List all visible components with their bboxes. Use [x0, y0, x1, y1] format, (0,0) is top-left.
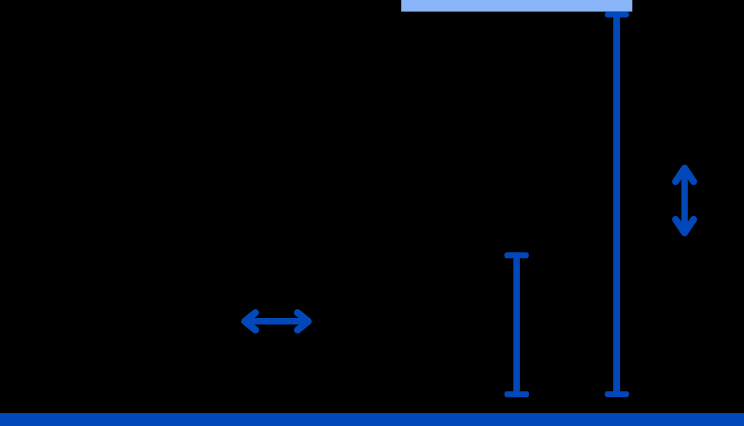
- shaft: [249, 318, 304, 325]
- stem: [613, 14, 620, 394]
- top cap: [605, 12, 629, 18]
- top head: [676, 168, 694, 181]
- top cap: [504, 252, 528, 258]
- right head: [298, 313, 309, 330]
- horizontal double-headed arrow: [245, 313, 309, 330]
- stem: [513, 255, 520, 394]
- bottom cap: [605, 391, 629, 397]
- left head: [245, 313, 256, 330]
- short vertical dimension line: [504, 252, 529, 397]
- bottom head: [676, 219, 694, 232]
- long vertical dimension line: [605, 12, 629, 397]
- shaft: [681, 172, 688, 229]
- vertical double-headed arrow: [676, 168, 694, 233]
- top bar (light blue element): [401, 0, 632, 12]
- bottom cap: [504, 391, 529, 397]
- bottom bar (viewport bottom edge): [0, 413, 744, 426]
